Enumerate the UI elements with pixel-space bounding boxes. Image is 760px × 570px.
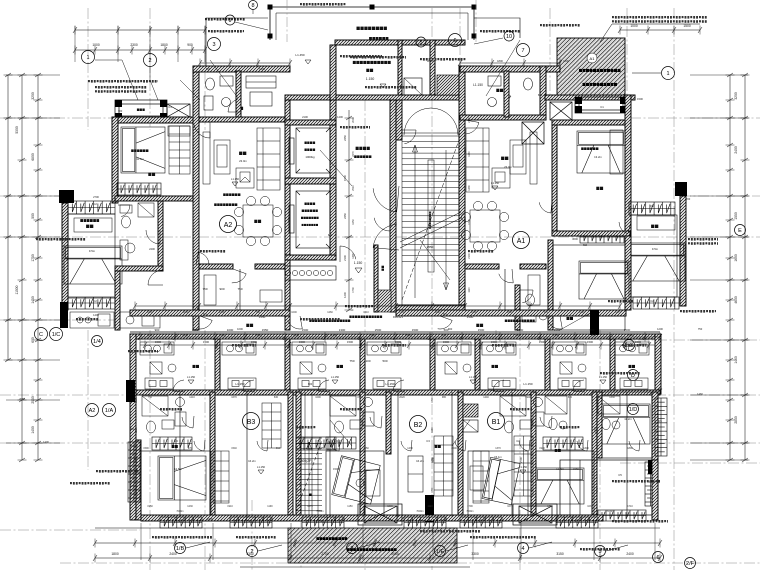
- door swing A2 entry: [194, 122, 210, 138]
- bedroom1 A2 room: [118, 123, 193, 196]
- door swing bathroom B3: [182, 416, 194, 428]
- entrance canopy x-box left: [364, 506, 397, 523]
- note top-left: [95, 86, 146, 93]
- svg-text:C2: C2: [93, 202, 97, 206]
- canopy inner circle mark: [587, 53, 597, 63]
- bottom window 5: [460, 517, 502, 528]
- svg-text:2400: 2400: [149, 247, 155, 251]
- svg-text:1460: 1460: [734, 356, 738, 364]
- svg-text:1790: 1790: [468, 219, 471, 225]
- svg-text:3150: 3150: [556, 552, 564, 556]
- bathroom fixtures extra: [598, 396, 620, 430]
- bottom dim chain 1: [93, 539, 662, 548]
- svg-text:L1.150: L1.150: [331, 375, 339, 379]
- vestibule label: [356, 147, 370, 150]
- bed right wing: [627, 243, 685, 281]
- A1 bed2 left wall: [548, 240, 553, 330]
- svg-text:L1.150: L1.150: [523, 382, 533, 386]
- svg-text:1/D: 1/D: [629, 407, 638, 413]
- A1 hall division wall right: [520, 264, 546, 269]
- svg-text:1190: 1190: [267, 505, 273, 508]
- svg-text:2020: 2020: [399, 396, 405, 399]
- column mark roof: [268, 34, 273, 39]
- svg-text:7000m: 7000m: [416, 510, 423, 513]
- A2 entry wall: [199, 117, 285, 122]
- svg-text:1800: 1800: [147, 311, 153, 314]
- svg-text:500: 500: [590, 328, 595, 332]
- kitchen partition 7: [610, 339, 615, 392]
- party wall b4: [458, 392, 463, 520]
- svg-text:1750: 1750: [31, 254, 35, 262]
- note top 3: [480, 30, 520, 33]
- svg-text:7000m: 7000m: [606, 510, 613, 513]
- right dim chain outer: [741, 73, 750, 462]
- hatched entrance walkway: [288, 528, 457, 563]
- note bottom b3: [236, 536, 276, 539]
- bathroom A2 fixtures: [120, 203, 154, 260]
- svg-text:1550: 1550: [553, 333, 559, 337]
- svg-text:1760: 1760: [399, 311, 405, 314]
- svg-text:750: 750: [256, 311, 261, 314]
- svg-text:2180: 2180: [468, 117, 471, 123]
- svg-text:1540: 1540: [231, 447, 237, 450]
- door swing bottom unit: [329, 440, 340, 451]
- kitchen counter 2: [145, 378, 173, 389]
- elevator car 1: [289, 128, 330, 173]
- right dim chain inner: [726, 73, 735, 462]
- svg-text:1500: 1500: [405, 333, 411, 337]
- svg-text:12.5m: 12.5m: [174, 467, 182, 471]
- grid bubble 4: [518, 543, 529, 554]
- note top 2: [300, 3, 345, 6]
- svg-text:1330: 1330: [609, 396, 615, 399]
- partition x=330: [329, 392, 331, 517]
- svg-text:7000m: 7000m: [466, 510, 473, 513]
- partition x=452: [451, 392, 453, 517]
- svg-text:100: 100: [365, 359, 370, 363]
- partition x=180: [179, 392, 181, 517]
- svg-text:1: 1: [666, 71, 669, 77]
- bedroom label A1: [596, 187, 603, 190]
- door swing: [198, 316, 213, 329]
- grid bubble 1: [662, 67, 675, 80]
- svg-text:1480: 1480: [319, 447, 325, 450]
- vestibule annotation: [345, 305, 389, 308]
- svg-text:1690: 1690: [734, 254, 738, 262]
- upper-right parapet outline: [474, 18, 520, 38]
- svg-text:M1: M1: [443, 312, 447, 316]
- bed B3: [158, 456, 206, 500]
- column mark roof: [472, 34, 477, 39]
- svg-text:1550: 1550: [554, 328, 561, 332]
- svg-text:2000: 2000: [451, 447, 457, 450]
- A1 upper bath fixtures: [488, 76, 533, 107]
- note right mid: [600, 372, 640, 375]
- svg-text:9.5m: 9.5m: [652, 247, 659, 251]
- grid bubble 7: [517, 44, 530, 57]
- A2 left exterior wall: [112, 117, 118, 203]
- upper-left parapet outline: [206, 18, 268, 66]
- core annotation: [340, 55, 382, 58]
- svg-text:L1.450: L1.450: [295, 53, 305, 57]
- elevator shaft right wall: [330, 100, 336, 260]
- svg-text:1440: 1440: [483, 396, 489, 399]
- svg-text:1000: 1000: [563, 59, 569, 63]
- svg-text:L1.150: L1.150: [469, 375, 477, 379]
- svg-text:1940: 1940: [539, 447, 545, 450]
- svg-text:1400: 1400: [31, 426, 35, 434]
- mid window strip 2: [326, 437, 356, 449]
- svg-text:1910: 1910: [227, 505, 233, 508]
- svg-text:980: 980: [442, 396, 447, 399]
- desk B2: [366, 470, 380, 496]
- level triangle: [520, 470, 526, 474]
- A1 top inner dim: [458, 59, 562, 68]
- bottom exterior wall: [141, 515, 603, 521]
- leader roof left: [235, 22, 268, 30]
- A2 shoe cabinet: [260, 290, 282, 302]
- grid bubble 1/E: [435, 546, 446, 557]
- svg-text:2450: 2450: [343, 135, 347, 141]
- level triangle: [470, 380, 476, 384]
- party wall b3: [360, 392, 365, 520]
- hatched canopy block top-right: [557, 38, 625, 97]
- svg-text:10: 10: [506, 34, 512, 40]
- A1 hall cabinet: [528, 275, 540, 305]
- corridor annotation2: [505, 320, 535, 323]
- svg-text:970: 970: [188, 447, 193, 450]
- A2 hall storage partition: [239, 269, 241, 310]
- note bath b3: [160, 408, 182, 411]
- kitchen partition 6: [545, 339, 550, 392]
- level triangle: [332, 380, 338, 384]
- note b1b: [560, 426, 579, 429]
- door swing bathroom B2: [370, 416, 382, 428]
- mid window strip 1: [152, 437, 192, 450]
- svg-text:C3: C3: [516, 439, 520, 443]
- svg-text:C4: C4: [320, 519, 324, 523]
- grid bubble D: [628, 370, 639, 381]
- svg-text:1900: 1900: [525, 396, 531, 399]
- door swing kitchen: [573, 380, 585, 392]
- svg-text:1470: 1470: [615, 311, 621, 314]
- svg-text:1/C: 1/C: [52, 332, 61, 338]
- bed left wing: [64, 246, 122, 284]
- svg-text:2700: 2700: [519, 457, 523, 463]
- grid bubble 2/F: [685, 558, 696, 569]
- level triangle: [232, 182, 238, 186]
- grid bubble 6: [449, 34, 462, 47]
- svg-text:910: 910: [276, 447, 281, 450]
- canopy annotation: [612, 16, 707, 23]
- svg-text:11.2m: 11.2m: [624, 417, 632, 421]
- svg-text:1: 1: [86, 55, 89, 61]
- bedroom label B1: [555, 449, 561, 452]
- shear wall corner left: [59, 190, 74, 203]
- svg-text:1600: 1600: [596, 397, 599, 403]
- door swing A2 hall division: [232, 269, 246, 283]
- svg-text:16.2m: 16.2m: [416, 459, 424, 463]
- svg-text:C5: C5: [658, 419, 662, 423]
- kitchen counters row: [140, 342, 174, 355]
- svg-text:1550: 1550: [259, 315, 266, 319]
- balcony bottom right: [560, 460, 652, 515]
- svg-text:1210: 1210: [135, 427, 138, 433]
- note left bottom: [96, 470, 140, 473]
- left wing room label: [86, 225, 93, 228]
- svg-text:2700: 2700: [93, 195, 99, 199]
- roof label: [357, 27, 387, 30]
- note bath b2: [340, 408, 362, 411]
- bottom leader segments: [186, 542, 628, 551]
- kitchen counter 2: [298, 378, 326, 389]
- svg-text:1790: 1790: [467, 505, 473, 508]
- corner room left wall: [597, 392, 602, 458]
- A1 hall division wall left: [465, 264, 499, 269]
- kitchen counter 2: [558, 378, 586, 389]
- svg-text:1450: 1450: [31, 296, 35, 304]
- kitchen band small fixtures: [150, 362, 176, 374]
- kitchen label 1: [193, 365, 200, 368]
- svg-text:1/4: 1/4: [93, 339, 101, 345]
- svg-text:1500: 1500: [203, 340, 209, 344]
- A2 top inner dim: [198, 59, 292, 68]
- svg-text:1950: 1950: [147, 505, 153, 508]
- svg-text:23.0m: 23.0m: [239, 159, 247, 163]
- note canopy left: [540, 24, 580, 27]
- door swing: [438, 316, 453, 329]
- svg-text:C2: C2: [93, 299, 97, 303]
- grid bubble 2: [144, 54, 157, 67]
- svg-text:350: 350: [130, 427, 135, 431]
- svg-text:1300: 1300: [517, 328, 524, 332]
- svg-text:A1: A1: [517, 238, 526, 245]
- svg-text:11.8m: 11.8m: [136, 157, 144, 161]
- svg-text:C4: C4: [478, 519, 482, 523]
- shear wall right mid: [590, 310, 599, 335]
- svg-text:1180: 1180: [468, 151, 471, 157]
- corridor open lines: [130, 331, 660, 333]
- svg-text:1500: 1500: [343, 175, 347, 181]
- bedroom B2 room: [326, 451, 384, 515]
- bed A1 bedroom2: [579, 261, 629, 299]
- level triangle: [492, 186, 498, 190]
- A1 bedroom room: [557, 125, 625, 231]
- door swing bottom unit: [194, 440, 205, 451]
- wardrobe B3: [262, 403, 281, 448]
- svg-text:2400: 2400: [626, 552, 634, 556]
- bedroom B1b room: [536, 451, 594, 517]
- svg-text:1/E: 1/E: [436, 549, 445, 555]
- spacer: [351, 309, 353, 311]
- right wing bedroom: [631, 215, 677, 297]
- note right bottom: [612, 480, 660, 483]
- svg-text:2550: 2550: [427, 245, 434, 249]
- party wall b8: [652, 392, 658, 467]
- balcony window right edge 2: [645, 462, 656, 506]
- svg-text:1870: 1870: [307, 505, 313, 508]
- svg-text:1500: 1500: [412, 328, 419, 332]
- door swing bathroom B1: [540, 416, 552, 428]
- party wall b1: [210, 392, 215, 520]
- svg-text:L1.150: L1.150: [599, 375, 607, 379]
- svg-text:1800: 1800: [497, 59, 503, 63]
- svg-text:630: 630: [274, 396, 279, 399]
- note topleft mid: [208, 30, 244, 33]
- A1 bedroom top wall: [552, 120, 630, 125]
- stair entry door arc big 2: [373, 224, 399, 250]
- entrance corridor center vertical lines: [305, 392, 318, 520]
- svg-text:1460: 1460: [431, 457, 434, 463]
- svg-text:L1.150: L1.150: [235, 382, 245, 386]
- door swing kitchen: [493, 380, 505, 392]
- desk B1: [470, 466, 483, 490]
- svg-text:600: 600: [538, 93, 543, 97]
- note right wing mid: [608, 300, 633, 303]
- door swing kitchen: [393, 380, 405, 392]
- svg-text:1110: 1110: [427, 505, 433, 508]
- svg-text:1500: 1500: [635, 340, 641, 344]
- svg-text:1590: 1590: [143, 447, 149, 450]
- entry label A2: [236, 107, 243, 110]
- svg-text:1000kg: 1000kg: [305, 155, 315, 159]
- svg-text:C4: C4: [248, 519, 252, 523]
- note k1: [232, 344, 256, 347]
- svg-text:2450: 2450: [343, 213, 347, 219]
- door swing A1 entry: [465, 120, 479, 134]
- svg-text:7000m: 7000m: [176, 510, 183, 513]
- svg-text:2100: 2100: [302, 115, 308, 119]
- shear wall bottom-left: [126, 380, 135, 402]
- svg-text:2050: 2050: [363, 447, 369, 450]
- stair rail text: [429, 212, 431, 229]
- svg-text:1500: 1500: [478, 328, 485, 332]
- svg-text:1000: 1000: [227, 328, 234, 332]
- svg-text:700: 700: [118, 109, 123, 113]
- svg-text:1480: 1480: [596, 457, 599, 463]
- svg-text:2550: 2550: [297, 457, 301, 463]
- svg-text:1400: 1400: [93, 313, 99, 317]
- note entr: [296, 426, 315, 429]
- svg-text:L1.150: L1.150: [473, 83, 483, 87]
- couch strip B3: [213, 451, 229, 503]
- svg-text:C4: C4: [574, 519, 578, 523]
- svg-text:1550: 1550: [262, 328, 269, 332]
- note left wing2: [60, 238, 85, 241]
- partition x=247: [246, 392, 248, 517]
- svg-text:C3: C3: [174, 439, 178, 443]
- grid bubble 10: [504, 31, 514, 41]
- party wall b2b: [296, 392, 301, 520]
- svg-text:2700: 2700: [321, 552, 329, 556]
- door swing bottom unit: [577, 440, 588, 451]
- svg-text:1890: 1890: [627, 447, 633, 450]
- door swing bottom unit: [629, 440, 640, 451]
- entrance porch left: [358, 504, 402, 525]
- grid bubble 2/C: [624, 340, 635, 351]
- column mark roof: [472, 5, 477, 10]
- svg-text:1550: 1550: [734, 212, 738, 220]
- coffee table A1: [510, 140, 526, 174]
- B2 living table: [408, 456, 423, 492]
- door swing: [548, 316, 563, 329]
- A1 bedroom bottom wall: [552, 231, 630, 236]
- svg-text:450: 450: [658, 387, 663, 391]
- svg-text:1500: 1500: [467, 315, 474, 319]
- canopy text1: [579, 69, 621, 72]
- door swing A1 hall division: [499, 269, 513, 283]
- note corridor top: [365, 86, 416, 89]
- elevator shaft bottom wall: [285, 255, 336, 260]
- svg-text:M2: M2: [583, 243, 587, 247]
- note left low: [70, 482, 110, 485]
- A2 upper bath wall: [236, 71, 241, 117]
- svg-text:2050: 2050: [19, 397, 25, 401]
- core partition: [398, 40, 402, 95]
- svg-text:2520: 2520: [507, 311, 513, 314]
- door swing bottom unit: [519, 440, 530, 451]
- svg-text:1.150: 1.150: [366, 77, 375, 81]
- svg-text:4: 4: [521, 546, 524, 552]
- mid window strip right: [543, 437, 583, 450]
- core partition 2: [430, 40, 435, 95]
- note elev top: [340, 126, 370, 129]
- svg-text:1/A: 1/A: [105, 408, 114, 414]
- note left top2: [88, 80, 158, 83]
- svg-text:1150: 1150: [347, 505, 353, 508]
- svg-text:C2: C2: [650, 299, 654, 303]
- left wing bedroom: [68, 214, 115, 298]
- svg-text:2550: 2550: [391, 552, 399, 556]
- elevator divider wall: [285, 178, 336, 184]
- A2 interior wall bath bottom: [115, 266, 163, 271]
- bed B1: [482, 457, 520, 504]
- door swing vestibule right: [374, 215, 390, 231]
- level triangle vestibule: [355, 268, 362, 273]
- core upper corridor wall: [285, 95, 465, 100]
- left extension lines: [6, 75, 60, 443]
- corridor label left: [246, 324, 253, 327]
- kitchen label 2: [337, 365, 344, 368]
- svg-text:A1: A1: [590, 56, 596, 61]
- note center top: [350, 56, 406, 59]
- svg-text:1670: 1670: [231, 396, 237, 399]
- door swing A1 bath: [520, 290, 533, 303]
- bed A1 bedroom: [577, 131, 625, 173]
- partition x=570: [569, 392, 571, 517]
- bedroom label B2: [435, 445, 441, 448]
- svg-text:1200: 1200: [343, 292, 347, 298]
- svg-text:1630: 1630: [135, 487, 138, 493]
- corridor label right: [476, 324, 483, 327]
- grid bubble 3: [208, 38, 221, 51]
- level triangle: [188, 380, 194, 384]
- entrance porch right: [513, 504, 557, 525]
- vestibule dim chain: [345, 110, 354, 312]
- window strip: [128, 442, 140, 502]
- svg-text:12.5m: 12.5m: [556, 467, 564, 471]
- bedroom right corner room: [600, 392, 652, 458]
- svg-text:9.5m: 9.5m: [89, 249, 96, 253]
- note a1 hall: [468, 250, 493, 253]
- couch strip B1a: [473, 451, 489, 503]
- party wall b5: [386, 392, 391, 454]
- bathroom B1 fixtures: [500, 396, 544, 433]
- level triangle A1 entry: [505, 96, 511, 100]
- svg-text:900: 900: [219, 287, 224, 291]
- svg-text:500: 500: [31, 213, 35, 219]
- svg-text:1030: 1030: [587, 505, 593, 508]
